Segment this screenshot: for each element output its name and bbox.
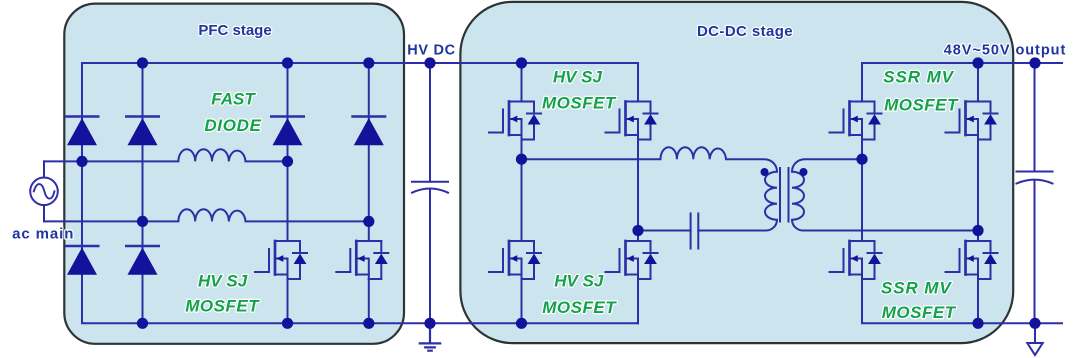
capacitor C1 HV DC curved plate <box>412 189 448 193</box>
capacitor Cr right plate <box>697 214 699 249</box>
ac source sine <box>34 184 55 199</box>
transformer primary polarity dot <box>761 168 769 176</box>
mosfet Q1 PFC <box>255 241 307 279</box>
wire: left bridge leg A source <box>521 279 523 323</box>
node ac bottom b2 <box>137 216 148 227</box>
wire: boost branch b3 upper segment <box>287 63 289 241</box>
node leg B midpoint <box>632 225 643 236</box>
node SSR top rail leg D <box>972 57 983 68</box>
capacitor C1 HV DC top plate <box>412 181 448 183</box>
DC-DC stage block <box>460 2 1013 343</box>
svg-text:ac main: ac main <box>12 226 74 243</box>
diode D2 <box>125 117 160 146</box>
transformer T1 core left bar <box>779 168 781 222</box>
diode D3 <box>65 246 100 275</box>
wire: SSR top rail + leg C drain <box>862 63 1062 102</box>
capacitor C2 output top plate <box>1017 171 1053 173</box>
mosfet Q3 bridge high side left <box>489 102 541 140</box>
wire: output cap top lead <box>1034 63 1036 172</box>
diode D4 <box>125 246 160 275</box>
ground earth stub bottom right <box>1034 323 1036 342</box>
node SSR leg C midpoint <box>856 154 867 165</box>
capacitor C2 output curved plate <box>1017 180 1053 184</box>
ground chassis below C1 <box>420 323 440 350</box>
wire: transformer T1 secondary winding to SSR bridge <box>792 159 978 230</box>
PFC stage block <box>64 4 404 344</box>
node inductor L2 to b4 <box>363 216 374 227</box>
mosfet Q4 bridge high side right <box>606 102 658 140</box>
mosfet Q8 SSR high side right <box>946 102 998 140</box>
wire: resonant inductor Lr and transformer T1 primary winding <box>522 147 778 230</box>
wire: left bridge leg B middle <box>637 140 639 242</box>
wire: SSR leg D middle <box>977 140 979 242</box>
node bottom rail b3 <box>282 318 293 329</box>
diode D1 <box>65 117 100 146</box>
node output bottom <box>1029 318 1040 329</box>
node bottom rail leg A <box>516 318 527 329</box>
wire: left bridge leg B source <box>637 279 639 323</box>
wire: output cap bottom lead <box>1034 181 1036 324</box>
node SSR leg D midpoint <box>972 225 983 236</box>
node ac top b1 <box>76 156 87 167</box>
svg-text:MOSFET: MOSFET <box>185 297 260 316</box>
svg-text:SSR MV: SSR MV <box>883 68 954 87</box>
svg-text:FAST: FAST <box>211 90 256 109</box>
wire: boost branch b4 upper segment <box>368 63 370 241</box>
svg-text:DC-DC stage: DC-DC stage <box>697 23 793 40</box>
fast diode D5 <box>270 117 305 146</box>
svg-text:HV DC: HV DC <box>407 43 456 59</box>
wire: SSR leg D drain <box>977 63 979 102</box>
wire: HV DC cap bottom lead <box>429 190 431 324</box>
mosfet Q9 SSR low side left <box>830 241 882 279</box>
ground earth triangle <box>1027 343 1042 355</box>
node bottom rail b2 <box>137 318 148 329</box>
svg-text:MOSFET: MOSFET <box>884 95 959 114</box>
svg-text:HV SJ: HV SJ <box>198 271 248 290</box>
wire: left bridge leg A drain <box>521 63 523 102</box>
wire: diode branch b2 <box>142 63 144 323</box>
node inductor L1 to b3 <box>282 156 293 167</box>
node output top <box>1029 57 1040 68</box>
svg-text:HV SJ: HV SJ <box>554 272 604 291</box>
node bottom rail HV DC cap <box>424 318 435 329</box>
wire: HV DC cap top lead <box>429 63 431 182</box>
node top rail leg A <box>516 57 527 68</box>
svg-text:MOSFET: MOSFET <box>542 298 617 317</box>
node SSR bottom rail leg D <box>972 318 983 329</box>
wire: SSR leg D source <box>977 279 979 323</box>
node top rail b2 <box>137 57 148 68</box>
wire: boost branch b4 source segment <box>368 279 370 323</box>
mosfet Q6 bridge low side right <box>606 241 658 279</box>
svg-text:MOSFET: MOSFET <box>882 303 957 322</box>
wire: ac bottom line with inductor L2 <box>44 209 369 221</box>
mosfet Q10 SSR low side right <box>946 241 998 279</box>
wire: ac source top stub <box>43 161 45 177</box>
wire: left bridge leg A middle <box>521 140 523 242</box>
svg-text:HV SJ: HV SJ <box>553 68 603 87</box>
wire: SSR leg C middle <box>861 140 863 242</box>
node top rail b4 <box>363 57 374 68</box>
svg-text:MOSFET: MOSFET <box>542 94 617 113</box>
svg-text:48V~50V output: 48V~50V output <box>944 43 1066 59</box>
mosfet Q2 PFC <box>336 241 388 279</box>
ac source V1 circle <box>30 178 58 206</box>
wire: bottom rail + left bridge leg b1 + top HV DC rail + right leg drain <box>82 63 638 323</box>
transformer secondary polarity dot <box>800 168 808 176</box>
svg-text:DIODE: DIODE <box>204 116 261 135</box>
svg-text:SSR MV: SSR MV <box>881 279 952 298</box>
mosfet Q5 bridge low side left <box>489 241 541 279</box>
capacitor Cr left plate <box>690 214 692 249</box>
node leg A midpoint <box>516 154 527 165</box>
mosfet Q7 SSR high side left <box>830 102 882 140</box>
node top rail b3 <box>282 57 293 68</box>
wire: boost branch b3 source segment <box>287 279 289 323</box>
wire: series cap to leg B midpoint <box>638 230 691 232</box>
svg-text:PFC stage: PFC stage <box>198 22 271 39</box>
fast diode D6 <box>351 117 386 146</box>
wire: ac source bottom stub <box>43 205 45 221</box>
wire: ac top line with inductor L1 <box>44 149 288 161</box>
transformer T1 core right bar <box>788 168 790 222</box>
node bottom rail b4 <box>363 318 374 329</box>
wire: SSR bottom rail + leg C source <box>862 279 1062 323</box>
node HV DC <box>424 57 435 68</box>
